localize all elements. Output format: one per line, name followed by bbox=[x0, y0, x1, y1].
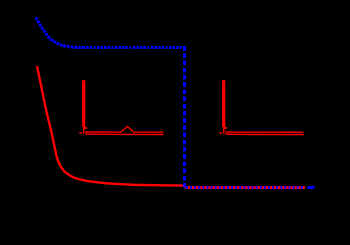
right inset: left stub bbox=[219, 132, 222, 134]
left inset: peak right shoulder bbox=[85, 127, 87, 129]
left inset: peak lower stem bbox=[83, 127, 85, 134]
blue dashed upper curve (decay to plateau) bbox=[36, 18, 83, 48]
red energy curve (solid, decaying to plateau then along bottom) bbox=[37, 66, 305, 188]
right inset: lower baseline bbox=[225, 133, 304, 135]
left inset: lower baseline bbox=[85, 133, 163, 135]
right inset: peak lower stem bbox=[223, 127, 225, 134]
blue end dash beyond red bbox=[308, 186, 315, 189]
blue dashed plateau segment bbox=[83, 46, 186, 49]
red tail under blue dashes (crisp) bbox=[186, 186, 305, 189]
right inset: upper baseline bbox=[225, 131, 303, 133]
right inset: peak right shoulder bbox=[225, 127, 227, 129]
left inset: tall delta peak bar bbox=[82, 80, 85, 127]
blue dashed vertical quench line bbox=[183, 46, 186, 189]
left inset: left stub bbox=[79, 132, 82, 134]
blue dashed horizontal line at bottom (overlaid on red) bbox=[186, 186, 305, 189]
left inset: upper baseline with small bump bbox=[85, 126, 163, 132]
right inset: tall delta peak bar bbox=[222, 80, 225, 127]
